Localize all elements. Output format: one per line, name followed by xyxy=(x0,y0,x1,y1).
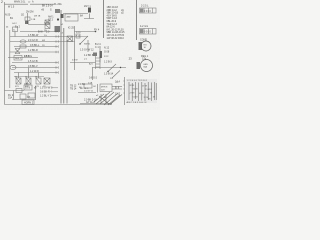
connector marks on row ends xyxy=(56,30,58,73)
vertical feeder xyxy=(103,0,105,38)
dark filled components xyxy=(25,8,143,73)
callout tables top right xyxy=(140,8,157,34)
connector pair r7 xyxy=(56,61,58,63)
switch drop wire xyxy=(87,40,89,52)
callout1 dark cell xyxy=(140,9,143,13)
contact drop b xyxy=(28,68,30,79)
dark bar vertical xyxy=(99,48,101,63)
component boxes xyxy=(10,14,120,105)
diagonal w3 xyxy=(104,93,118,105)
dark blob near circle2 xyxy=(137,62,141,69)
row dash a xyxy=(52,87,58,89)
small boxes cluster bottom mid xyxy=(84,84,92,88)
circles right xyxy=(141,41,153,72)
dark bar right xyxy=(100,51,103,58)
row wire R5 xyxy=(10,51,58,53)
row wire R8 xyxy=(12,67,58,69)
callout box 2 xyxy=(140,29,157,35)
dense block vertical wires bottom right xyxy=(129,82,156,101)
dark hatch box mid xyxy=(55,26,61,32)
contact X low2 xyxy=(26,78,31,84)
box bottom left 1 xyxy=(24,85,32,90)
frame left vertical xyxy=(4,2,6,105)
wire top middle xyxy=(63,13,88,15)
cross wire b xyxy=(58,41,75,43)
dark blob near circle1 xyxy=(139,42,143,50)
box bottom left 3 xyxy=(22,100,34,105)
connector pair r5 xyxy=(56,51,58,53)
bus vertical B2 xyxy=(63,28,65,104)
connector pair r1 xyxy=(56,30,58,32)
contact X b xyxy=(45,25,50,29)
row dash b xyxy=(52,91,58,93)
bm inner vline xyxy=(97,84,99,93)
box row6 xyxy=(14,56,22,61)
row wire R9 xyxy=(14,72,58,74)
contact drop c xyxy=(38,73,40,79)
connector pair r4 xyxy=(56,45,58,47)
connector pair r9 xyxy=(56,71,58,73)
box bottom left 2 xyxy=(20,94,26,99)
row wire R4 xyxy=(14,46,58,48)
dense verticals xyxy=(129,82,156,101)
contact X low3 xyxy=(36,78,41,84)
bottom wire right part xyxy=(80,103,112,105)
low left vertical a xyxy=(13,91,15,100)
diagonal wire bundle bottom middle xyxy=(94,87,122,106)
row wire R3 xyxy=(10,41,58,43)
text blob right of toprow xyxy=(93,53,97,57)
paper noise xyxy=(0,0,160,110)
cluster drop vertical xyxy=(27,13,29,24)
connector pair r8 xyxy=(56,66,58,68)
box bl extra xyxy=(28,93,35,98)
row wire R1 xyxy=(20,31,58,33)
tick marks on dense vline xyxy=(123,81,124,93)
diagonal w1 xyxy=(96,92,110,104)
connector pair r2 xyxy=(56,35,58,37)
ellipse component xyxy=(10,65,16,69)
row wire R7 xyxy=(12,62,58,64)
resistor on R4 xyxy=(20,45,26,48)
switch dots xyxy=(79,43,80,44)
box top mid xyxy=(65,14,78,21)
switch box small xyxy=(76,34,80,38)
exit wires right xyxy=(112,87,122,90)
mid branch vertical xyxy=(92,68,94,81)
contact header wire xyxy=(14,76,44,78)
vertical at dense block xyxy=(124,77,126,105)
node stub T xyxy=(84,14,94,19)
fuse on wire xyxy=(16,89,22,93)
callout2 dark cell xyxy=(140,29,143,33)
contact X low1 xyxy=(16,78,21,84)
connector pair r3 xyxy=(56,40,58,42)
wire left low xyxy=(5,90,25,92)
blade dots mid xyxy=(107,71,108,72)
branch vertical V74 xyxy=(74,26,76,70)
top wire xyxy=(5,3,55,5)
switch blade xyxy=(80,36,88,44)
diagonal w6 xyxy=(94,94,104,102)
mid long wire xyxy=(70,62,96,64)
callout box 1 xyxy=(140,8,157,13)
dark block A xyxy=(55,9,60,13)
contact drop a xyxy=(18,73,20,79)
relay box K1 xyxy=(13,27,18,32)
resistor on R3 xyxy=(20,40,26,43)
low left vertical b xyxy=(35,86,37,100)
short verticals xyxy=(101,94,106,103)
module box bm xyxy=(100,84,112,92)
ladder strip xyxy=(96,56,101,69)
row wire R6 xyxy=(8,57,38,59)
cluster right of bus X xyxy=(67,36,73,42)
inner bus vertical xyxy=(9,30,11,88)
frame bottom wire xyxy=(5,104,113,106)
text layer xyxy=(1,0,155,104)
relay top wire xyxy=(75,31,97,33)
meter circle M2 xyxy=(141,60,153,72)
bottom mid wire xyxy=(78,92,96,94)
dark block A2 xyxy=(61,14,64,18)
X box mid low xyxy=(44,78,50,84)
diagonal w7 xyxy=(110,95,122,105)
row dash c xyxy=(51,95,58,97)
low left wire2 xyxy=(12,99,36,101)
bus vertical B1 xyxy=(60,10,62,104)
meter circle M1 xyxy=(141,41,151,51)
dense block tint xyxy=(126,79,157,103)
junction dot xyxy=(57,18,59,20)
diagonal w2 xyxy=(100,92,114,104)
dark block B xyxy=(88,8,91,13)
bus vertical B3 xyxy=(66,40,68,104)
transformer X xyxy=(15,49,20,54)
dark cluster blob xyxy=(25,21,29,24)
contact X a xyxy=(45,20,50,24)
right long wire xyxy=(92,67,126,69)
cluster wire right xyxy=(28,24,46,26)
cluster box xyxy=(25,17,30,21)
diagonal w4 xyxy=(99,96,109,104)
diagonal w5 xyxy=(108,95,120,105)
vertical divider right xyxy=(136,0,138,40)
row wire R2 xyxy=(10,36,58,38)
switch blade mid1 xyxy=(108,64,116,72)
cross wire a xyxy=(58,36,88,38)
switch blade mid2 xyxy=(112,71,120,79)
K1 drop xyxy=(14,32,16,37)
